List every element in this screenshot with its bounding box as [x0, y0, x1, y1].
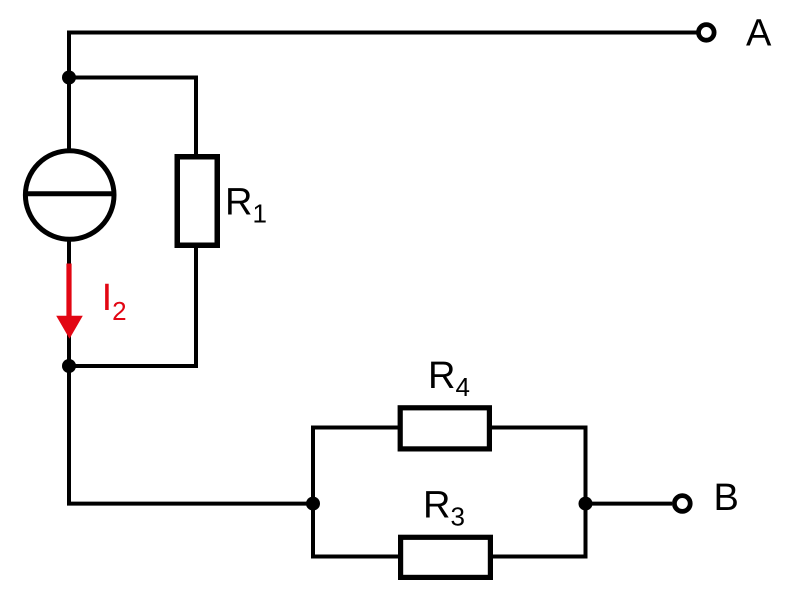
wire junction to R1 top — [69, 78, 196, 157]
resistor R1 — [177, 157, 217, 246]
wire parallel block left side — [313, 428, 398, 557]
wire left vertical + bottom horizontal to parallel block — [69, 366, 313, 504]
resistor R3 — [401, 537, 491, 577]
current arrow I2 — [56, 264, 83, 339]
wire to terminal B — [586, 502, 673, 506]
wire current source bottom to junction — [67, 239, 71, 366]
resistor R4 — [400, 408, 489, 449]
terminal B — [674, 496, 690, 512]
node junction top — [62, 71, 76, 85]
wire parallel block right side — [492, 428, 586, 557]
node junction parallel-left — [306, 497, 320, 511]
wire top from node to terminal A — [69, 33, 697, 151]
node junction parallel-right — [579, 497, 593, 511]
current source I2 — [25, 151, 114, 240]
svg-text:A: A — [746, 13, 772, 55]
wire R1 bottom to junction — [69, 246, 196, 366]
terminal A — [699, 25, 715, 41]
svg-text:B: B — [714, 477, 739, 519]
node junction bottom-left — [62, 359, 76, 373]
